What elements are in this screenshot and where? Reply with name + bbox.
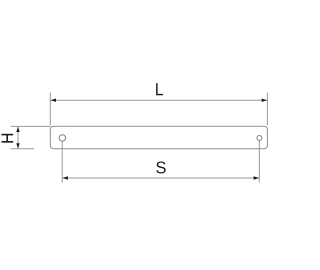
right hole <box>257 136 262 141</box>
L dimension: right extension line <box>266 93 268 126</box>
L dimension left arrowhead <box>51 99 56 102</box>
label L <box>156 83 163 95</box>
label S <box>156 161 166 173</box>
H dimension line <box>17 127 19 149</box>
L dimension line <box>51 99 268 101</box>
S dimension left arrowhead <box>63 176 68 179</box>
H dimension down arrowhead <box>16 143 19 148</box>
L dimension: left extension line <box>49 93 51 126</box>
S dimension right arrowhead <box>254 176 259 179</box>
bar body (rounded rectangle outline) <box>50 126 267 148</box>
H dimension: top extension line <box>11 125 51 127</box>
H dimension: bottom extension line <box>11 148 34 150</box>
S dimension: right extension line (from right hole) <box>258 141 260 183</box>
L dimension right arrowhead <box>262 99 267 102</box>
left hole <box>59 135 65 141</box>
label H (rotated, drawn as strokes) <box>2 134 14 143</box>
S dimension line <box>63 177 260 179</box>
H dimension up arrowhead <box>16 127 19 132</box>
S dimension: left extension line (from left hole) <box>61 142 63 183</box>
